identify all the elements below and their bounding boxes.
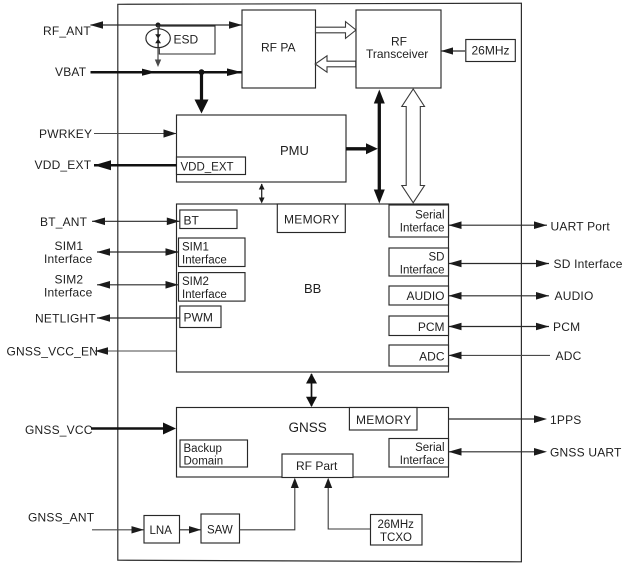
svg-text:SIM1: SIM1 [182, 242, 209, 254]
svg-text:Interface: Interface [182, 255, 227, 267]
wire SD (bidirectional) [449, 260, 550, 268]
svg-text:VBAT: VBAT [55, 65, 87, 79]
hollow arrow RF Transceiver to RF PA [315, 56, 356, 72]
block AUDIO (BB) [389, 286, 449, 305]
block RF PA [242, 10, 316, 88]
svg-text:SIM1: SIM1 [55, 239, 84, 253]
bus BB to GNSS (double arrow) [306, 373, 317, 407]
svg-text:PWM: PWM [184, 311, 213, 325]
block PMU [177, 115, 347, 182]
svg-text:GNSS_ANT: GNSS_ANT [28, 511, 95, 525]
wire SAW to RF Part [240, 478, 299, 530]
block SIM2 Interface [179, 273, 246, 302]
svg-text:PWRKEY: PWRKEY [39, 127, 92, 141]
svg-text:BB: BB [304, 281, 321, 296]
wire GNSS_ANT to LNA [92, 526, 144, 533]
block RF Part (GNSS) [282, 454, 353, 478]
svg-text:SD Interface: SD Interface [554, 257, 623, 271]
block Serial Interface (BB) [389, 205, 449, 237]
svg-text:Interface: Interface [400, 223, 445, 235]
wire TCXO to RF Part [324, 478, 370, 529]
wire BT_ANT (bidirectional) [92, 218, 180, 226]
svg-text:Interface: Interface [44, 286, 93, 300]
svg-text:PCM: PCM [553, 320, 580, 334]
svg-text:Transceiver: Transceiver [366, 47, 428, 61]
svg-text:Interface: Interface [400, 455, 445, 467]
svg-text:ESD: ESD [174, 33, 199, 47]
wire PWRKEY to PMU [94, 129, 177, 137]
wire VBAT (thick power) [91, 68, 243, 76]
block VDD_EXT regulator output [177, 157, 246, 175]
wire PMU to BB (double arrow) [259, 184, 265, 204]
svg-text:SD: SD [429, 252, 445, 264]
block BT [180, 210, 237, 229]
svg-text:Interface: Interface [44, 252, 93, 266]
svg-text:PMU: PMU [280, 143, 309, 158]
block 26MHz TCXO [371, 515, 423, 546]
wire GNSS UART (bidirectional) [449, 448, 548, 456]
svg-text:VDD_EXT: VDD_EXT [35, 158, 92, 172]
wire RF_ANT antenna line [90, 21, 242, 29]
svg-text:Interface: Interface [182, 289, 227, 301]
svg-text:PCM: PCM [418, 320, 445, 334]
svg-text:MEMORY: MEMORY [284, 213, 340, 227]
svg-text:GNSS_VCC_EN: GNSS_VCC_EN [7, 345, 99, 359]
svg-text:Domain: Domain [184, 456, 224, 468]
block SIM1 Interface [179, 238, 246, 267]
wire AUDIO (bidirectional) [449, 292, 550, 300]
svg-text:RF PA: RF PA [261, 41, 295, 55]
block PWM [180, 306, 221, 328]
block MEMORY (BB) [277, 204, 345, 233]
block SAW [201, 514, 240, 543]
svg-text:ADC: ADC [419, 350, 445, 364]
power trunk RF Transceiver to BB (thick, both arrows) [374, 90, 385, 204]
svg-text:SAW: SAW [207, 525, 233, 537]
module outline [118, 3, 522, 562]
wire 1PPS (output) [449, 415, 548, 423]
node: VBAT junction [199, 69, 205, 75]
svg-text:SIM2: SIM2 [55, 273, 84, 287]
svg-text:GNSS UART: GNSS UART [550, 446, 622, 460]
block LNA [144, 516, 180, 544]
wire 26MHz to RF Transceiver [441, 47, 465, 54]
wire GNSS_VCC_EN [95, 347, 177, 355]
block ADC (BB) [389, 345, 449, 366]
block GNSS [177, 408, 449, 478]
svg-text:26MHz: 26MHz [378, 519, 415, 531]
svg-text:BT: BT [184, 214, 200, 228]
ESD block [159, 26, 215, 54]
svg-text:VDD_EXT: VDD_EXT [181, 162, 234, 174]
wire NETLIGHT [97, 314, 180, 322]
wire VBAT to PMU (thick) [195, 72, 209, 113]
svg-text:TCXO: TCXO [380, 532, 412, 544]
wire LNA to SAW [180, 526, 202, 533]
ESD protection diode D1 [146, 25, 170, 67]
block RF Transceiver [356, 10, 441, 88]
block Serial Interface (GNSS) [389, 439, 449, 468]
svg-text:AUDIO: AUDIO [406, 289, 444, 303]
wire SIM2 (bidirectional) [97, 281, 179, 289]
wire ADC (input) [449, 352, 551, 360]
hollow bus arrow RF Transceiver to BB [402, 89, 425, 203]
block BB [177, 204, 449, 372]
svg-text:ADC: ADC [556, 349, 582, 363]
svg-text:LNA: LNA [150, 525, 173, 537]
svg-text:MEMORY: MEMORY [356, 413, 412, 427]
wire UART (bidirectional) [449, 221, 548, 229]
svg-text:SIM2: SIM2 [182, 276, 209, 288]
block MEMORY (GNSS) [349, 408, 417, 431]
block PCM (BB) [389, 316, 449, 336]
svg-text:Serial: Serial [415, 210, 444, 222]
svg-text:Backup: Backup [184, 443, 222, 455]
wire PMU to power trunk (thick) [346, 143, 378, 154]
svg-text:Serial: Serial [415, 442, 444, 454]
svg-text:BT_ANT: BT_ANT [40, 215, 88, 229]
hollow arrow RF PA to RF Transceiver [316, 22, 357, 39]
node: RF_ANT / ESD junction [156, 23, 161, 28]
block Backup Domain [180, 440, 248, 468]
wire VDD_EXT out (thick) [94, 160, 177, 170]
block SD Interface (BB) [389, 248, 449, 277]
svg-text:1PPS: 1PPS [550, 413, 582, 427]
wire GNSS_VCC (thick) [91, 423, 176, 435]
svg-text:UART Port: UART Port [551, 220, 611, 234]
svg-text:RF Part: RF Part [296, 459, 338, 473]
wire SIM1 (bidirectional) [97, 248, 179, 256]
svg-text:RF_ANT: RF_ANT [43, 24, 91, 38]
svg-text:AUDIO: AUDIO [555, 289, 594, 303]
svg-text:26MHz: 26MHz [472, 44, 510, 58]
svg-text:NETLIGHT: NETLIGHT [35, 312, 96, 326]
svg-text:GNSS_VCC: GNSS_VCC [25, 423, 93, 437]
wire PCM (bidirectional) [449, 323, 550, 331]
block 26MHz crystal [466, 40, 516, 62]
svg-text:GNSS: GNSS [289, 420, 327, 435]
svg-text:Interface: Interface [400, 265, 445, 277]
